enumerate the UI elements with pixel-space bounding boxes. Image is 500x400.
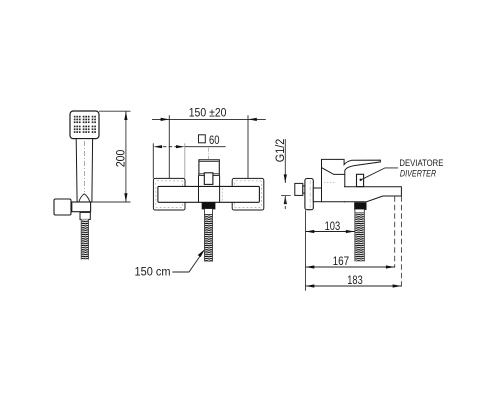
svg-text:DEVIATORE: DEVIATORE [399,158,443,169]
svg-text:150 ±20: 150 ±20 [189,107,227,120]
svg-text:DIVERTER: DIVERTER [400,169,436,180]
svg-text:167: 167 [333,255,350,268]
svg-text:200: 200 [113,149,127,167]
svg-text:150 cm: 150 cm [135,266,171,279]
svg-text:103: 103 [325,220,341,233]
svg-text:60: 60 [209,133,220,147]
svg-text:183: 183 [347,274,362,287]
